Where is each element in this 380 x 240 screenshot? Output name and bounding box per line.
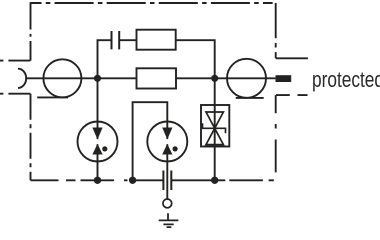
wire: arrester 2 through to earth tap: [166, 122, 168, 200]
bottom capacitor to earth: [163, 171, 171, 191]
wire: node B down through TVS to bus: [214, 78, 216, 180]
resistor R2 (middle): [137, 68, 177, 88]
TVS zener bar: [203, 123, 226, 133]
node A junction dot: [94, 75, 101, 82]
wire: top branch up from node A: [98, 40, 112, 78]
isolating spark gap circle right: [227, 59, 266, 98]
wire: middle branch resistor to output node: [176, 77, 275, 79]
unprotected input terminal arc: [18, 69, 26, 88]
protected output terminal (solid): [276, 75, 292, 82]
enclosure border right notch top: [276, 57, 308, 59]
enclosure border right upper (dash-dot): [275, 3, 277, 58]
TVS diode triangle top: [206, 112, 223, 128]
arrester 2 gas dot: [173, 146, 178, 151]
spark gap electrode line right (bottom tangent): [236, 97, 264, 99]
enclosure border left upper (dash-dot): [30, 2, 32, 60]
enclosure border bottom / ground bus (dash-dot): [31, 179, 274, 181]
capacitor C top branch: [112, 31, 120, 49]
arrester 2 arrow down: [162, 128, 172, 140]
bus junction dot 2: [129, 177, 136, 184]
resistor R1 (top): [137, 30, 176, 50]
gas discharge tube arrester 2 circle: [147, 122, 187, 162]
wire: hook from bus up over to arrester 2 top: [133, 102, 168, 180]
label: protected: [312, 67, 380, 93]
wire: main line left section: [26, 77, 137, 79]
TVS diode triangle bottom: [206, 128, 223, 144]
isolating spark gap circle left: [43, 59, 81, 97]
bus junction dot 3: [211, 177, 218, 184]
enclosure border left notch bottom: [0, 93, 31, 95]
gas discharge tube arrester 1 circle: [78, 122, 118, 162]
earth isolation circle: [163, 199, 172, 208]
wire: capacitor to resistor R1: [119, 39, 136, 41]
enclosure border left lower (dash-dot): [30, 94, 32, 181]
ground symbol: [159, 213, 179, 227]
wire: node A down to arrester 1 and bus: [97, 78, 99, 180]
spark gap electrode line left (bottom tangent): [37, 96, 68, 98]
node B junction dot: [211, 75, 218, 82]
TVS suppressor diode box: [201, 105, 229, 147]
arrester 1 arrow up: [92, 144, 102, 155]
arrester 1 gas dot: [102, 146, 107, 151]
bus junction dot 1: [94, 177, 101, 184]
enclosure border right notch bottom: [276, 94, 308, 96]
enclosure border top (dash-dot): [31, 2, 273, 4]
arrester 1 arrow down: [92, 128, 102, 140]
enclosure border right lower (dash-dot): [275, 95, 277, 172]
wire: R1 to right vertical down to node B: [176, 40, 215, 78]
arrester 2 arrow up: [162, 144, 172, 155]
enclosure border left notch top: [0, 60, 31, 62]
